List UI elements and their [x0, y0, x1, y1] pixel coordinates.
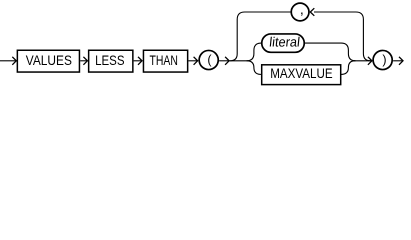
svg-text:(: (	[207, 53, 212, 67]
comma circle	[291, 3, 309, 21]
wire main through branch point	[229, 60, 247, 62]
wire start	[0, 60, 16, 62]
branch wire down to MAXVALUE	[247, 61, 261, 75]
wire literal to join	[304, 43, 355, 61]
arrowhead into VALUES	[12, 57, 16, 65]
keyword box MAXVALUE	[262, 65, 341, 85]
wire THAN to left paren	[188, 60, 197, 62]
svg-text:MAXVALUE: MAXVALUE	[270, 65, 332, 81]
svg-text:THAN: THAN	[150, 52, 178, 68]
keyword box LESS	[89, 50, 133, 72]
svg-text:literal: literal	[269, 34, 301, 49]
arrowhead into comma circle	[310, 8, 314, 16]
arrowhead into THAN	[138, 57, 142, 65]
svg-text:LESS: LESS	[95, 52, 124, 68]
wire LESS to THAN	[134, 60, 142, 62]
branch wire up to literal	[247, 43, 262, 61]
keyword box VALUES	[17, 50, 79, 72]
svg-text:): )	[382, 53, 386, 67]
arrowhead into right paren	[368, 57, 372, 65]
loop return wire	[230, 12, 291, 61]
arrowhead after left paren	[225, 57, 229, 65]
wire MAXVALUE to join	[341, 61, 355, 75]
svg-text:VALUES: VALUES	[26, 52, 72, 68]
loop top right wire	[314, 12, 371, 61]
wire end	[393, 60, 402, 62]
svg-text:,: ,	[300, 1, 304, 17]
delimiter circle )	[373, 50, 392, 69]
wire join to right paren	[354, 60, 371, 62]
delimiter circle (	[199, 50, 218, 69]
keyword box THAN	[143, 50, 187, 72]
arrowhead into LESS	[83, 57, 87, 65]
literal oval	[262, 34, 305, 52]
arrowhead end	[399, 57, 403, 65]
wire after left paren	[219, 60, 228, 62]
wire VALUES to LESS	[80, 60, 87, 62]
arrowhead into left paren	[194, 57, 198, 65]
